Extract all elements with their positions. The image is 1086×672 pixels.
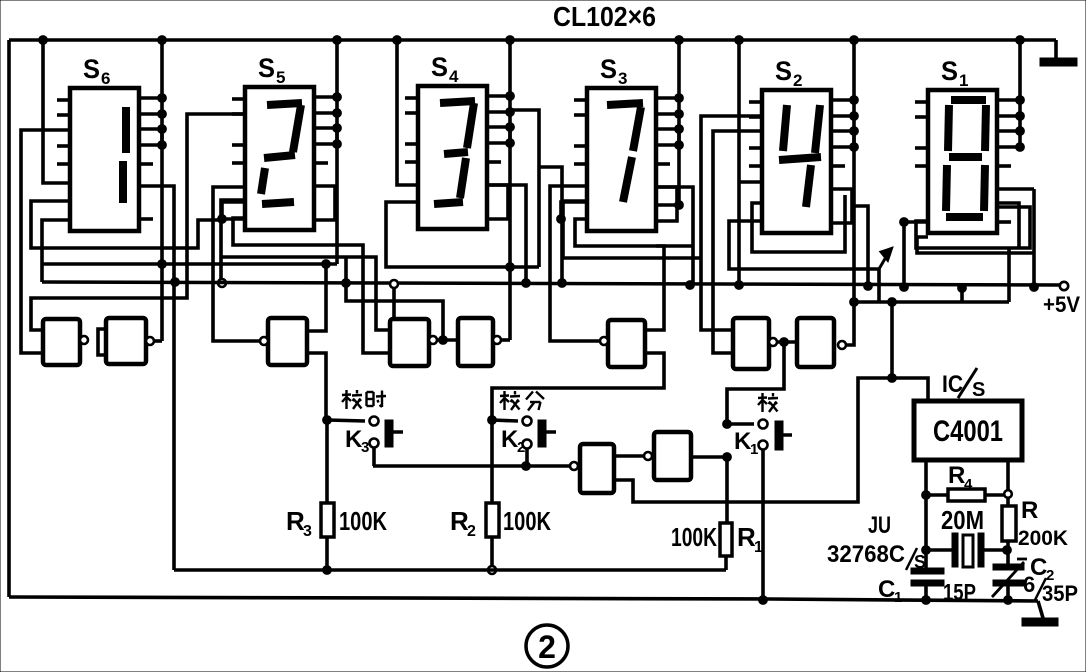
wire +5V rail <box>42 282 1062 285</box>
node +5V rail junctions <box>171 278 180 287</box>
bubble G1a output <box>80 336 88 344</box>
terminal +5V <box>1060 282 1068 290</box>
label K1 switch (set) <box>758 396 767 399</box>
bubble G2a output <box>429 336 437 344</box>
wire K2 pole down to common <box>525 448 529 466</box>
wire S6 pin to +5V rail <box>42 220 70 282</box>
display S1 (CL102 LED digit tube) <box>928 90 997 233</box>
svg-text:R: R <box>948 462 965 489</box>
wire S3 anode bus vertical <box>677 40 681 145</box>
wire GA output to GB input <box>614 454 644 458</box>
svg-text:2: 2 <box>793 71 802 90</box>
node K2 common <box>522 462 531 471</box>
wire gate G4 upper output up to S3 loop <box>645 246 664 330</box>
node G2 junction <box>439 336 448 345</box>
pins S4 left stubs <box>405 96 418 100</box>
IC U1 C4001 <box>914 401 1022 460</box>
gate G1a (under S6) <box>43 319 80 365</box>
svg-text:+5V: +5V <box>1043 292 1080 317</box>
bubble G4 input <box>600 337 608 345</box>
wire tie line S6 bus to S5 bus <box>42 262 337 266</box>
wire top +5V bus <box>9 38 1056 42</box>
pin S2 right stub <box>831 164 845 168</box>
wire S1 loop bottom <box>917 237 1034 253</box>
bubble G3 input <box>260 337 268 345</box>
svg-text:1: 1 <box>754 539 763 556</box>
pin S4 right stub <box>487 160 501 164</box>
wire S2 right pin loop <box>831 189 852 223</box>
crystal JU 32768C/S <box>926 548 952 552</box>
pin S6 right stub <box>139 162 153 166</box>
wire G5b output up to S2 bus <box>846 302 854 345</box>
svg-text:100K: 100K <box>339 506 387 536</box>
display S3 (CL102 LED digit tube) <box>587 88 656 231</box>
button K3 <box>385 420 393 447</box>
node R4 left <box>922 491 931 500</box>
resistor R1 100K <box>725 457 729 523</box>
wire S3 pin to +5V rail <box>656 187 693 285</box>
svg-text:20M: 20M <box>941 505 984 535</box>
svg-text:200K: 200K <box>1018 527 1068 550</box>
wire S4 anode bus vertical <box>508 40 512 143</box>
wire S2 pin stub from drop <box>739 180 762 184</box>
wire loop under S1 <box>916 207 1030 248</box>
svg-text:3: 3 <box>303 523 312 540</box>
svg-text:1: 1 <box>894 589 902 606</box>
svg-text:C: C <box>878 576 895 603</box>
capacitor C2 trimmer 6/35P <box>1006 550 1010 564</box>
wire K3 pole down <box>372 448 376 466</box>
svg-text:S: S <box>431 52 448 82</box>
wire clock line up to S1 loop <box>1007 248 1011 302</box>
wire G1b output to S6 bus <box>154 339 162 343</box>
bubble G5a output <box>769 338 777 346</box>
wire S5 loop to gate pair G2 junction <box>346 257 443 340</box>
svg-text:4: 4 <box>449 67 459 86</box>
figure label 2 <box>526 625 568 667</box>
wire G4 lower output down to K2 <box>492 353 664 420</box>
wire G5 junction down to K1 <box>727 342 784 424</box>
gate G5a (under S2) <box>733 318 769 369</box>
svg-text:S: S <box>941 56 958 86</box>
pins S1 right to bus <box>997 98 1020 102</box>
node S6 bus bottom <box>158 260 167 269</box>
svg-text:6: 6 <box>1023 572 1035 597</box>
pin S1 right stub <box>997 164 1011 168</box>
wire K2 node down to R2 <box>490 420 494 503</box>
svg-text:35P: 35P <box>1042 581 1078 606</box>
wire S6 anode bus vertical <box>160 40 164 145</box>
wire GB output to R1 node <box>691 455 727 459</box>
node R1 top junction <box>723 453 732 462</box>
resistor R3 100K <box>321 503 334 537</box>
wire K1 pole down to ground bus <box>761 449 765 600</box>
svg-text:S: S <box>775 56 792 86</box>
bubble G1b output <box>146 337 154 345</box>
svg-text:S: S <box>83 54 100 84</box>
label K3 switch (set hour) <box>342 393 351 396</box>
wire clock line down to IC <box>890 302 894 378</box>
pin S3 right stub <box>656 162 670 166</box>
svg-text:S: S <box>258 53 275 83</box>
wire IC right pin down <box>1006 460 1010 506</box>
svg-text:3: 3 <box>361 439 369 456</box>
wire G3 upper output to tie line <box>307 264 326 331</box>
svg-text:S: S <box>972 379 985 401</box>
svg-text:1: 1 <box>959 71 968 90</box>
pin S6 lower stub <box>139 217 153 221</box>
wire G3 lower output down to K3 <box>307 353 326 420</box>
wire K3 node down to R3 <box>325 420 329 503</box>
wire loops under S3 <box>575 219 693 246</box>
wire G2a input tap from +5V rail <box>390 280 398 288</box>
wire bottom border bus <box>9 597 1038 601</box>
pin S5 right stub <box>314 161 328 165</box>
wire left border <box>7 40 11 597</box>
svg-text:4: 4 <box>964 476 973 493</box>
display S6 (CL102 LED digit tube) <box>70 88 139 231</box>
svg-text:CL102×6: CL102×6 <box>553 1 656 32</box>
switch K3 <box>323 416 332 425</box>
svg-text:15P: 15P <box>943 579 976 605</box>
switch K1 <box>723 420 732 429</box>
wire S3 bus lower extension <box>677 127 681 205</box>
svg-text:3: 3 <box>618 69 627 88</box>
wire resistor common line <box>174 568 726 572</box>
wire loop under S4 tied to bus <box>386 202 539 267</box>
gate G2b <box>458 318 493 366</box>
bubble G2b output <box>493 336 501 344</box>
node top bus junctions <box>39 36 48 45</box>
pins S1 lower right feeds <box>997 187 1034 191</box>
svg-text:6: 6 <box>101 69 110 88</box>
wire S6 bus extension down to gate G1b output <box>160 127 164 341</box>
pins S5 right to bus <box>314 95 337 99</box>
gate G1b <box>106 318 146 364</box>
wire gate G5a inputs from S2 pins <box>701 116 762 330</box>
bubble GB input <box>644 452 652 460</box>
pins S3 left stubs <box>574 98 587 102</box>
wire S1 loop left to +5V rail <box>904 222 928 284</box>
wire S4 right pin loop <box>487 185 508 219</box>
svg-text:2: 2 <box>538 629 556 665</box>
wire S4 bus extension down to G2b output <box>508 127 512 340</box>
pins S5 left stubs <box>232 97 245 101</box>
wire S2 anode bus vertical <box>852 40 856 147</box>
svg-text:32768C: 32768C <box>827 541 905 568</box>
arrow to S1 <box>879 257 886 269</box>
svg-text:S: S <box>600 54 617 84</box>
wire S1 anode bus vertical <box>1018 40 1022 147</box>
bubble GA input <box>570 462 578 470</box>
wire S5 right pin loop <box>314 186 335 220</box>
wire +5V rail tap to clock line <box>960 286 964 302</box>
svg-text:100K: 100K <box>503 506 551 536</box>
button K1 <box>775 421 783 450</box>
wire top bus drop left of S2 <box>737 40 741 284</box>
svg-text:1: 1 <box>750 441 758 458</box>
wire clock line horizontal <box>854 300 1009 304</box>
wire S6 pin to resistor common bus <box>138 186 174 570</box>
capacitor C1 15P <box>911 568 944 574</box>
svg-text:5: 5 <box>276 68 285 87</box>
resistor R 200K <box>1002 506 1016 541</box>
wire S4 to S3 staircase <box>510 110 539 267</box>
wire G2b output to S4 bus <box>501 338 510 342</box>
label K2 switch (set minute) <box>500 394 509 397</box>
wire top bus drop to S4 pin <box>397 40 418 185</box>
resistor R2 100K <box>486 503 499 537</box>
wire loop under S2 inner <box>752 195 845 252</box>
display S4 (CL102 LED digit tube) <box>418 86 487 229</box>
svg-text:JU: JU <box>868 512 891 539</box>
display S2 (CL102 LED digit tube) <box>762 90 831 233</box>
svg-text:C4001: C4001 <box>933 415 1003 448</box>
bubble G5b output <box>838 341 846 349</box>
wire S3 right pin loop <box>656 187 677 221</box>
svg-text:R: R <box>1021 497 1038 524</box>
display S5 (CL102 LED digit tube) <box>245 87 314 230</box>
wire loops under S5 to gate G2a inputs <box>233 218 390 353</box>
trimmer arrow C2 <box>992 562 1024 597</box>
wire S6 feed from top bus to pin <box>43 40 70 183</box>
wire S2 pin to +5V rail <box>853 206 868 286</box>
wire S2 bus extension down <box>852 127 856 302</box>
pins S1 left stubs <box>915 100 928 104</box>
wire gate G4 input from S3 pin <box>550 186 600 341</box>
pins S2 right to bus <box>831 98 854 102</box>
wire S6 lower-left pin to gate G1a <box>21 130 70 353</box>
gate G5b <box>797 318 834 367</box>
gate GB <box>654 432 691 480</box>
pins S6 right to bus <box>139 96 162 100</box>
gate GA (correction gate) <box>580 444 614 493</box>
gate G3 (under S5) <box>268 318 307 365</box>
wire S5 pin to gate G1a upper input <box>31 114 245 330</box>
node G5 junction <box>780 338 789 347</box>
node S2 bus at clock line <box>850 298 859 307</box>
wire S5 bus extension <box>335 127 339 264</box>
gate G4 (under S3) <box>608 320 645 367</box>
bracket G1b input <box>98 329 106 355</box>
wire IC left pin down <box>924 460 928 568</box>
wire S5 pin to gate G3 input <box>213 187 262 341</box>
pins S4 right to bus <box>487 94 510 98</box>
wire S4 pin down to +5V rail <box>487 185 526 283</box>
switch K2 <box>488 416 497 425</box>
wire switch common to GA input <box>373 464 570 468</box>
ground (top right) <box>1054 40 1058 58</box>
pins S6 left stubs <box>57 98 70 102</box>
pins S2 left stubs <box>749 100 762 104</box>
svg-text:2: 2 <box>467 523 476 540</box>
button K2 <box>538 420 546 447</box>
ground (bottom right) <box>1038 601 1043 618</box>
wire GA lower output to oscillator line <box>614 378 928 502</box>
wire S5 anode bus vertical <box>335 40 339 144</box>
pins S3 right to bus <box>656 96 679 100</box>
resistor R4 20M <box>926 493 948 497</box>
gate G2a (under S4) <box>390 319 429 366</box>
svg-text:100K: 100K <box>671 522 717 552</box>
wire S6 pin to S5 staircase <box>31 201 222 248</box>
wire carry path S2 to S1 with arrow <box>729 221 879 302</box>
